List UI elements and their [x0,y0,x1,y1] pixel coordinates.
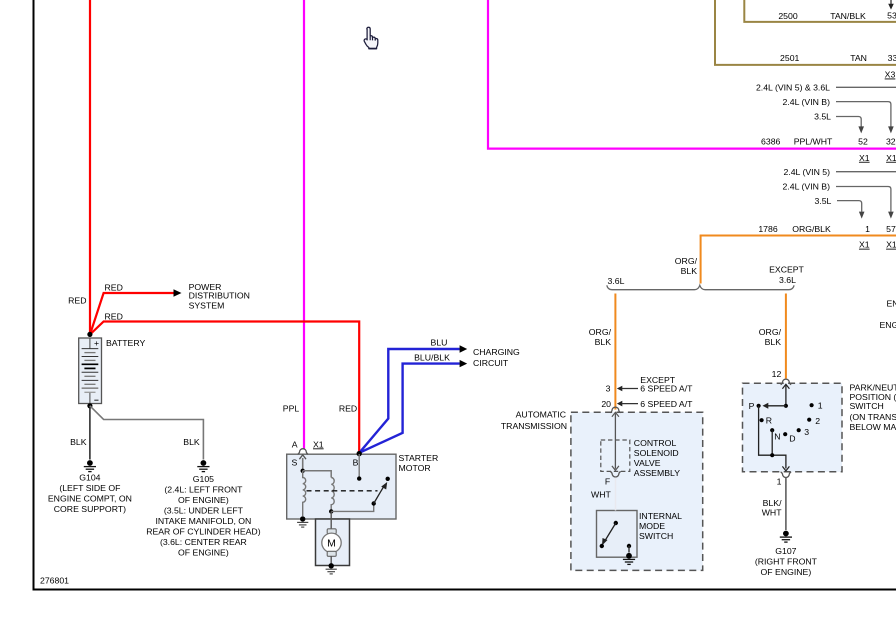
svg-text:SOLENOID: SOLENOID [634,448,679,458]
battery plates [82,349,99,393]
pnp wire N down [771,430,773,455]
svg-text:2.4L (VIN 5): 2.4L (VIN 5) [783,167,830,177]
svg-text:EXCEPT: EXCEPT [769,264,804,274]
svg-text:S: S [292,458,298,468]
svg-text:SYSTEM: SYSTEM [189,301,225,311]
svg-text:ENGINE: ENGINE [887,299,896,309]
svg-text:M: M [327,538,336,550]
wire org/blk 3.6L branch [614,294,616,410]
svg-text:PPL: PPL [283,403,300,413]
wire blk/wht to G107 [785,478,787,530]
svg-text:G107: G107 [775,546,796,556]
ims ground wire [628,546,630,553]
svg-text:X3: X3 [885,70,896,80]
svg-text:ORG/: ORG/ [759,327,782,337]
svg-text:SWITCH: SWITCH [639,531,673,541]
svg-text:ENGINE COMPT, ON: ENGINE COMPT, ON [48,493,132,503]
motor circle M [322,533,341,552]
battery internals [89,338,91,404]
svg-text:BLK: BLK [595,337,612,347]
svg-text:52: 52 [858,136,868,146]
svg-text:12: 12 [772,369,782,379]
svg-text:REAR OF CYLINDER HEAD): REAR OF CYLINDER HEAD) [146,526,261,536]
svg-text:6386: 6386 [761,137,780,147]
battery minus sign [94,399,98,401]
svg-text:OF ENGINE): OF ENGINE) [178,547,229,557]
park neutral position switch dashed box [743,383,843,472]
motor brush top [327,529,336,534]
svg-text:57: 57 [886,224,896,234]
svg-text:X1: X1 [859,240,870,250]
svg-text:INTAKE MANIFOLD, ON: INTAKE MANIFOLD, ON [155,516,251,526]
svg-text:WHT: WHT [591,489,611,499]
node battery positive [87,332,92,337]
svg-text:(2.4L: LEFT FRONT: (2.4L: LEFT FRONT [164,484,243,494]
wire blu/blk to charging circuit [359,364,460,453]
svg-text:TRANSMISSION: TRANSMISSION [501,421,567,431]
pnp contact D [783,432,787,436]
svg-text:20: 20 [601,399,611,409]
svg-text:(ON TRANSMISSION,: (ON TRANSMISSION, [850,412,896,422]
svg-text:2.4L (VIN B): 2.4L (VIN B) [783,97,831,107]
pnp down arrow [782,466,789,471]
svg-text:G105: G105 [193,474,214,484]
wire motor to ground [330,556,332,563]
node battery negative [87,403,92,408]
battery body [79,338,102,404]
svg-text:OF ENGINE): OF ENGINE) [178,495,229,505]
wire org/blk except 3.6L branch [785,294,787,379]
arrow vin b pplwht [888,126,894,133]
svg-text:2.4L (VIN B): 2.4L (VIN B) [783,182,831,192]
svg-text:6 SPEED A/T: 6 SPEED A/T [640,399,693,409]
pnp contact P [757,404,761,408]
internal mode switch box [597,511,638,558]
wire coil2 into motor [330,511,332,529]
svg-text:BELOW MANIFOLD): BELOW MANIFOLD) [850,422,896,432]
svg-text:1: 1 [777,477,782,487]
svg-text:(LEFT SIDE OF: (LEFT SIDE OF [59,483,120,493]
arrow pin 53 [888,4,894,10]
pnp contact 3 [797,428,801,432]
wire stub pin 53 [890,0,892,5]
arrow vin b orgblk [888,212,894,219]
arrow blu/blk [460,360,468,367]
svg-text:RED: RED [105,283,123,293]
frame left border [33,0,35,591]
svg-text:MOTOR: MOTOR [399,463,431,473]
split brace [607,285,794,289]
wire org/blk 1786 horizontal [701,236,896,237]
pnp wire P to out [759,406,786,469]
svg-text:B: B [353,458,359,468]
pnp contact R [760,418,764,422]
ground G104 [84,460,96,472]
svg-text:D: D [789,434,795,444]
svg-text:RED: RED [68,296,86,306]
battery top stub [89,338,91,349]
node coil2 bottom [329,509,333,513]
svg-text:TAN/BLK: TAN/BLK [830,11,866,21]
wire S to coil2 [303,471,332,478]
switch blade [374,486,385,504]
svg-text:+: + [94,338,99,348]
svg-text:CHARGING: CHARGING [473,347,520,357]
svg-text:32: 32 [886,136,896,146]
variant line vin b for pplwht [836,102,891,127]
variant line vin b for orgblk [836,187,891,212]
arrow switch blade [381,482,387,490]
svg-text:SWITCH: SWITCH [850,401,884,411]
arrow blu [460,345,468,352]
starter motor box [287,454,396,519]
svg-text:3.6L: 3.6L [608,276,625,286]
variant line 3.5 for pplwht [836,117,861,127]
coil 2 [331,478,334,512]
ground G107 [780,531,792,543]
pnp node center [784,404,788,408]
ims pivot node [614,521,618,525]
svg-text:1: 1 [865,224,870,234]
svg-text:X1: X1 [886,153,896,163]
svg-text:BLK: BLK [681,266,698,276]
wire coil2 to switch [331,506,374,512]
svg-text:2500: 2500 [778,11,797,21]
wire blk to G105 [90,406,203,460]
ims blade [605,523,616,542]
svg-text:DISTRIBUTION: DISTRIBUTION [189,291,250,301]
coil 1 [303,471,306,516]
svg-text:ORG/: ORG/ [675,256,698,266]
svg-text:X1: X1 [859,153,870,163]
svg-text:BATTERY: BATTERY [106,338,145,348]
svg-text:BLK: BLK [70,437,87,447]
svg-text:G104: G104 [79,472,100,482]
wire starter S branch with up arrow [302,459,304,471]
svg-text:3.5L: 3.5L [814,112,831,122]
svg-text:INTERNAL: INTERNAL [639,511,682,521]
arrow 3.5 orgblk [859,212,865,219]
wire tan 2501 [715,0,896,65]
wire B contact [358,454,360,477]
wire red battery feed vertical [89,0,91,334]
wire wht faint [615,478,617,511]
svg-text:VALVE: VALVE [634,458,661,468]
ims right contact [627,544,631,548]
svg-text:R: R [766,415,772,425]
svg-text:OF ENGINE): OF ENGINE) [761,567,812,577]
wire tan/blk 2500 [744,0,896,22]
svg-text:F: F [605,476,610,486]
svg-text:X1: X1 [886,240,896,250]
arrow pin 3 pointer [617,386,623,392]
connector F arc [610,472,621,477]
wire ppl to starter A [303,0,305,449]
svg-text:BLK/: BLK/ [763,498,782,508]
svg-text:CORE SUPPORT): CORE SUPPORT) [54,504,126,514]
control solenoid inner dashed box [601,440,630,471]
svg-text:WHT: WHT [762,508,782,518]
svg-text:3: 3 [804,427,809,437]
node switch pivot [372,501,376,505]
svg-text:6 SPEED A/T: 6 SPEED A/T [640,384,693,394]
svg-text:53: 53 [887,11,896,21]
svg-text:2: 2 [815,416,820,426]
svg-text:RED: RED [339,403,357,413]
transmission solenoid wire [610,407,621,412]
ground G105 [197,460,209,472]
svg-text:BLU/BLK: BLU/BLK [414,352,450,362]
svg-text:BLK: BLK [183,437,200,447]
ims ground [623,553,635,565]
wire blk to G104 [89,406,91,460]
svg-text:1786: 1786 [758,224,777,234]
variant line vin5 3.6 for pplwht [836,86,896,88]
svg-text:2501: 2501 [780,53,799,63]
svg-text:N: N [774,432,780,442]
variant line 3.5 for orgblk [837,201,862,212]
svg-text:276801: 276801 [40,576,69,586]
svg-text:(3.5L: UNDER LEFT: (3.5L: UNDER LEFT [164,505,244,515]
svg-text:BLU: BLU [431,337,448,347]
ims blade arrow [602,538,608,546]
connector A arc [298,449,309,454]
battery bottom stub [89,392,91,403]
pnp connector 1 arc [781,472,792,477]
pnp node N junction [770,453,774,457]
svg-text:TAN: TAN [850,53,867,63]
svg-text:CIRCUIT: CIRCUIT [473,358,509,368]
svg-text:3: 3 [606,384,611,394]
ims left contact [600,544,604,548]
wire ppl/wht 6386 [488,0,896,149]
arrow 3.5 pplwht [858,126,864,133]
pnp arrow to P [766,405,786,407]
svg-text:CONTROL: CONTROL [634,438,677,448]
arrow to power distribution [174,289,182,297]
svg-text:RED: RED [105,311,123,321]
dashed actuation line [307,490,378,492]
node B contact [357,476,361,480]
svg-text:P: P [749,401,755,411]
svg-text:PPL/WHT: PPL/WHT [794,137,833,147]
svg-text:ASSEMBLY: ASSEMBLY [634,468,680,478]
svg-text:X1: X1 [313,439,324,449]
wire red to starter B [90,322,359,453]
svg-text:ORG/: ORG/ [589,327,612,337]
svg-text:1: 1 [818,400,823,410]
svg-text:(RIGHT FRONT: (RIGHT FRONT [755,556,818,566]
wire red to power distribution [90,293,174,335]
svg-text:AUTOMATIC: AUTOMATIC [516,410,566,420]
svg-text:33: 33 [888,53,896,63]
automatic transmission dashed box [571,412,703,570]
motor ground [326,563,337,574]
pnp contact N [770,428,774,432]
svg-text:ORG/BLK: ORG/BLK [792,224,831,234]
pnp contact 2 [807,418,811,422]
node switch contact [386,477,390,481]
pnp wire in with up arrow [785,386,787,406]
variant line vin5 for orgblk [836,171,896,173]
svg-text:3.5L: 3.5L [814,196,831,206]
starter ground [297,516,308,527]
pnp contact 1 [810,403,814,407]
svg-text:ENGINE: ENGINE [880,320,896,330]
frame bottom border [33,589,896,591]
wire org/blk drop to split [700,236,702,284]
svg-text:3.6L: 3.6L [779,275,796,285]
starter motor sub box [316,519,350,566]
svg-text:A: A [292,439,298,449]
arrow pin 20 pointer [617,401,623,407]
motor brush bottom [327,551,336,556]
pnp connector 12 arc [781,379,792,384]
node starter B junction [357,451,362,456]
svg-text:MODE: MODE [639,521,665,531]
node starter S [301,469,305,473]
svg-text:BLK: BLK [765,337,782,347]
svg-text:(3.6L: CENTER REAR: (3.6L: CENTER REAR [160,537,247,547]
svg-text:STARTER: STARTER [399,453,439,463]
cursor [364,27,378,48]
svg-text:2.4L (VIN 5) & 3.6L: 2.4L (VIN 5) & 3.6L [756,83,830,93]
wire blu to charging circuit [359,349,460,453]
